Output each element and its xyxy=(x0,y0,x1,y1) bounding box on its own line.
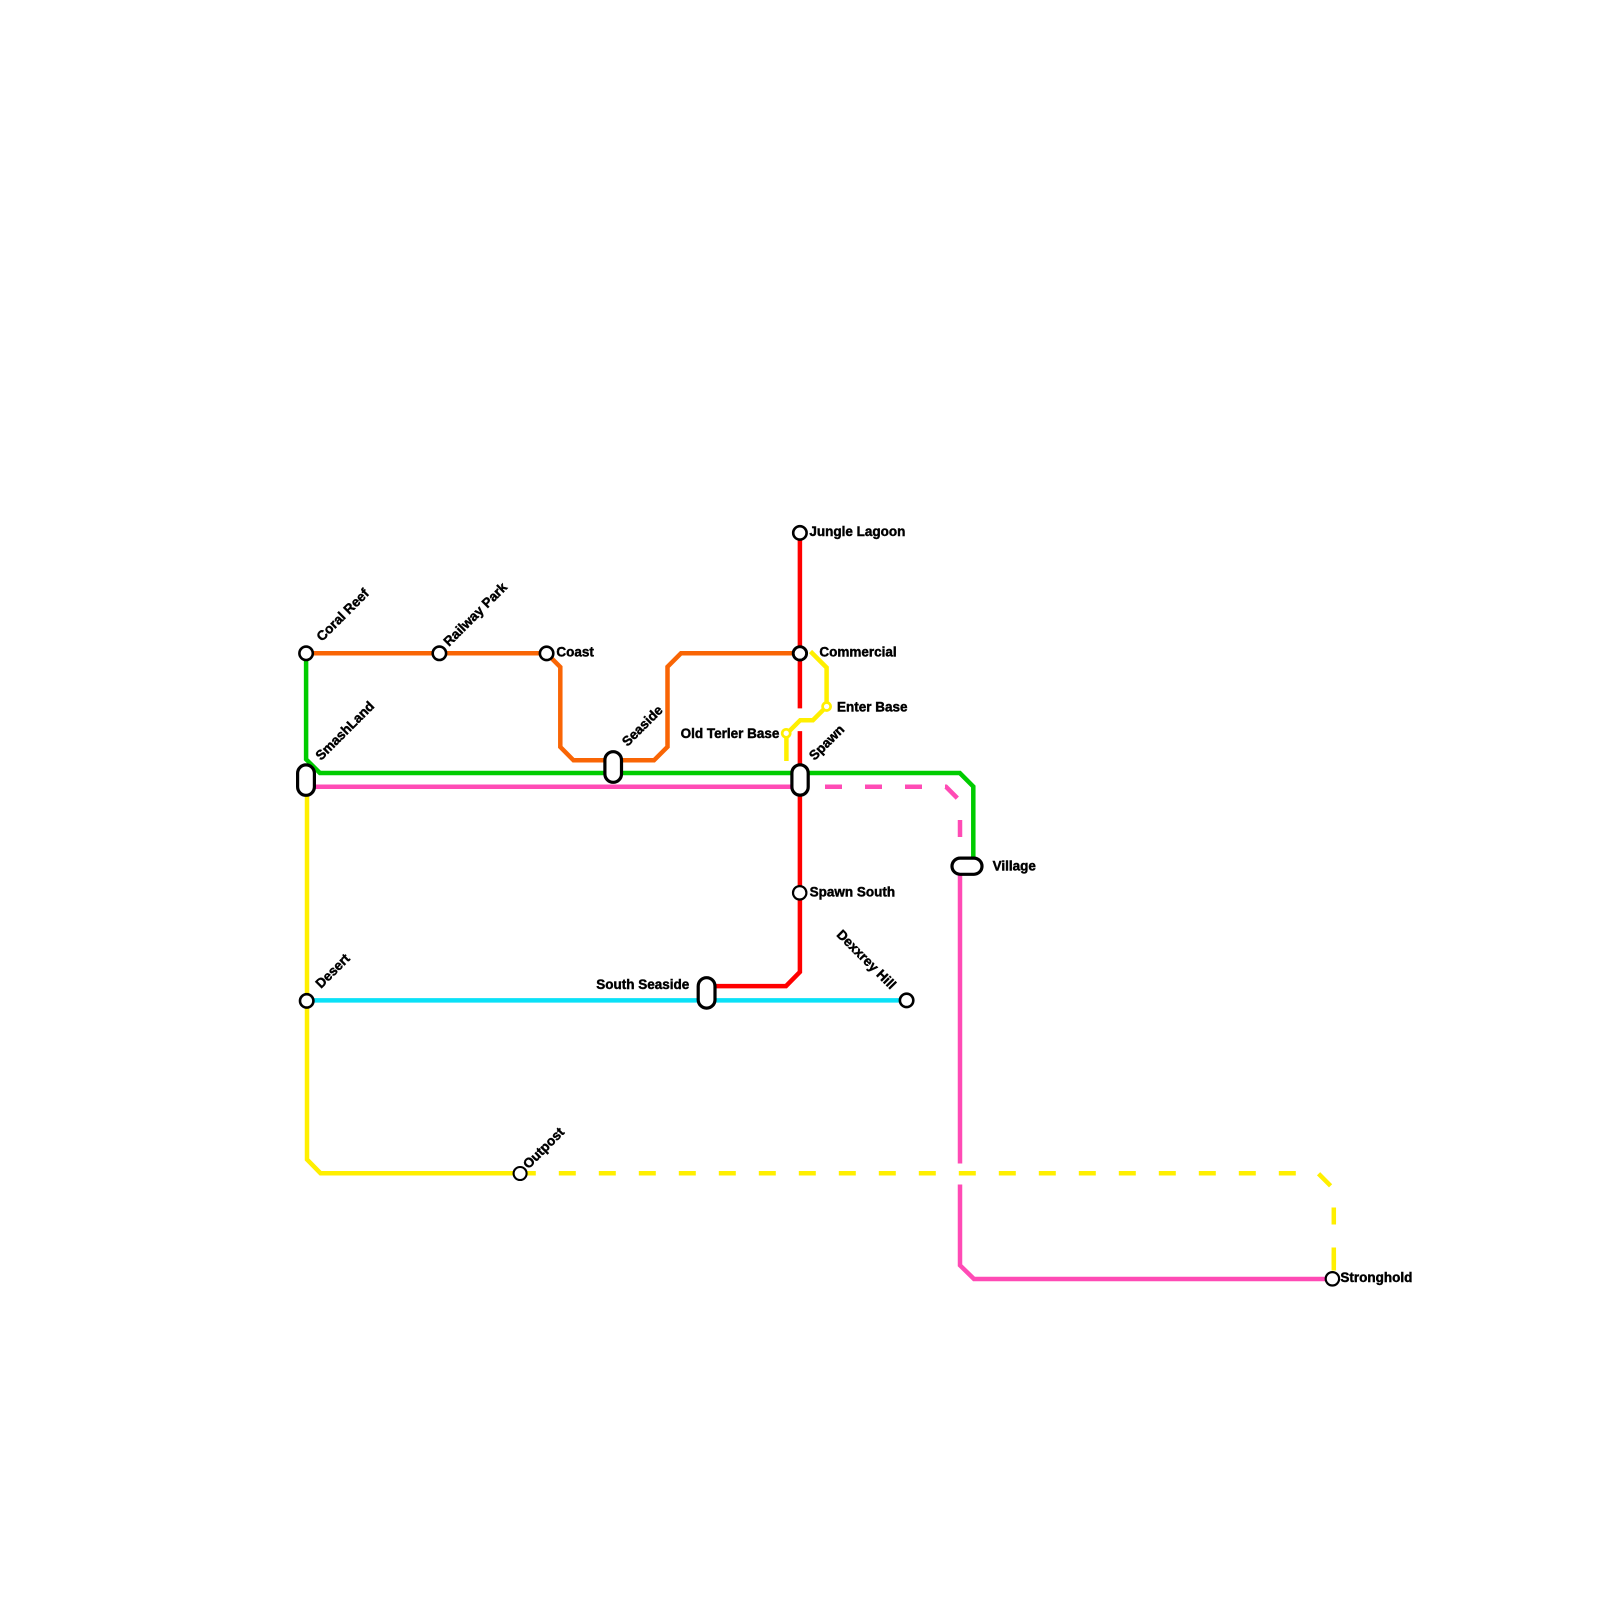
station circle Outpost xyxy=(514,1167,527,1180)
station circle Commercial xyxy=(793,647,806,660)
station circle Enter Base xyxy=(823,703,831,711)
station capsule SmashLand xyxy=(298,765,315,795)
pink line solid SmashLand - Spawn xyxy=(306,785,800,790)
svg-text:Jungle Lagoon: Jungle Lagoon xyxy=(809,524,905,539)
station circle Stronghold xyxy=(1326,1272,1339,1285)
station capsule Spawn xyxy=(792,765,808,795)
pink line dashed Spawn - Village xyxy=(808,787,960,859)
red line Jungle Lagoon - South Seaside (gap at yellow crossing) xyxy=(708,533,800,986)
station circle Railway Park xyxy=(433,647,446,660)
station circle Old Terler Base xyxy=(782,729,790,737)
svg-text:South Seaside: South Seaside xyxy=(596,977,690,992)
station capsule Seaside xyxy=(605,752,622,783)
svg-text:Enter Base: Enter Base xyxy=(837,700,908,715)
station capsule Village xyxy=(952,858,982,874)
yellow line Commercial - Enter Base - Old Terler Base xyxy=(786,652,826,762)
pink line solid Village - Stronghold (gap at yellow crossing) xyxy=(960,874,1332,1279)
svg-text:Commercial: Commercial xyxy=(819,645,896,660)
svg-text:Coast: Coast xyxy=(556,644,594,659)
green line Coral Reef - Village xyxy=(306,653,973,858)
yellow line stub at Stronghold xyxy=(1332,1254,1337,1271)
station circle Desert xyxy=(300,994,313,1007)
station circle Jungle Lagoon xyxy=(793,526,806,539)
station circle Dexxrey Hill xyxy=(900,994,913,1007)
yellow line SmashLand - Desert - Outpost xyxy=(307,795,520,1173)
svg-text:Village: Village xyxy=(993,858,1037,873)
svg-text:Old Terler Base: Old Terler Base xyxy=(681,726,780,741)
svg-text:Spawn South: Spawn South xyxy=(810,885,896,900)
svg-text:Stronghold: Stronghold xyxy=(1340,1270,1412,1285)
station circle Coast xyxy=(540,647,553,660)
station capsule South Seaside xyxy=(698,978,715,1008)
yellow line dashed Outpost - Stronghold xyxy=(520,1173,1334,1271)
station circle Coral Reef xyxy=(299,647,312,660)
orange line Coral Reef - Commercial xyxy=(306,653,800,760)
cyan line Desert - Dexxrey Hill xyxy=(307,998,907,1003)
station circle Spawn South xyxy=(793,886,806,899)
